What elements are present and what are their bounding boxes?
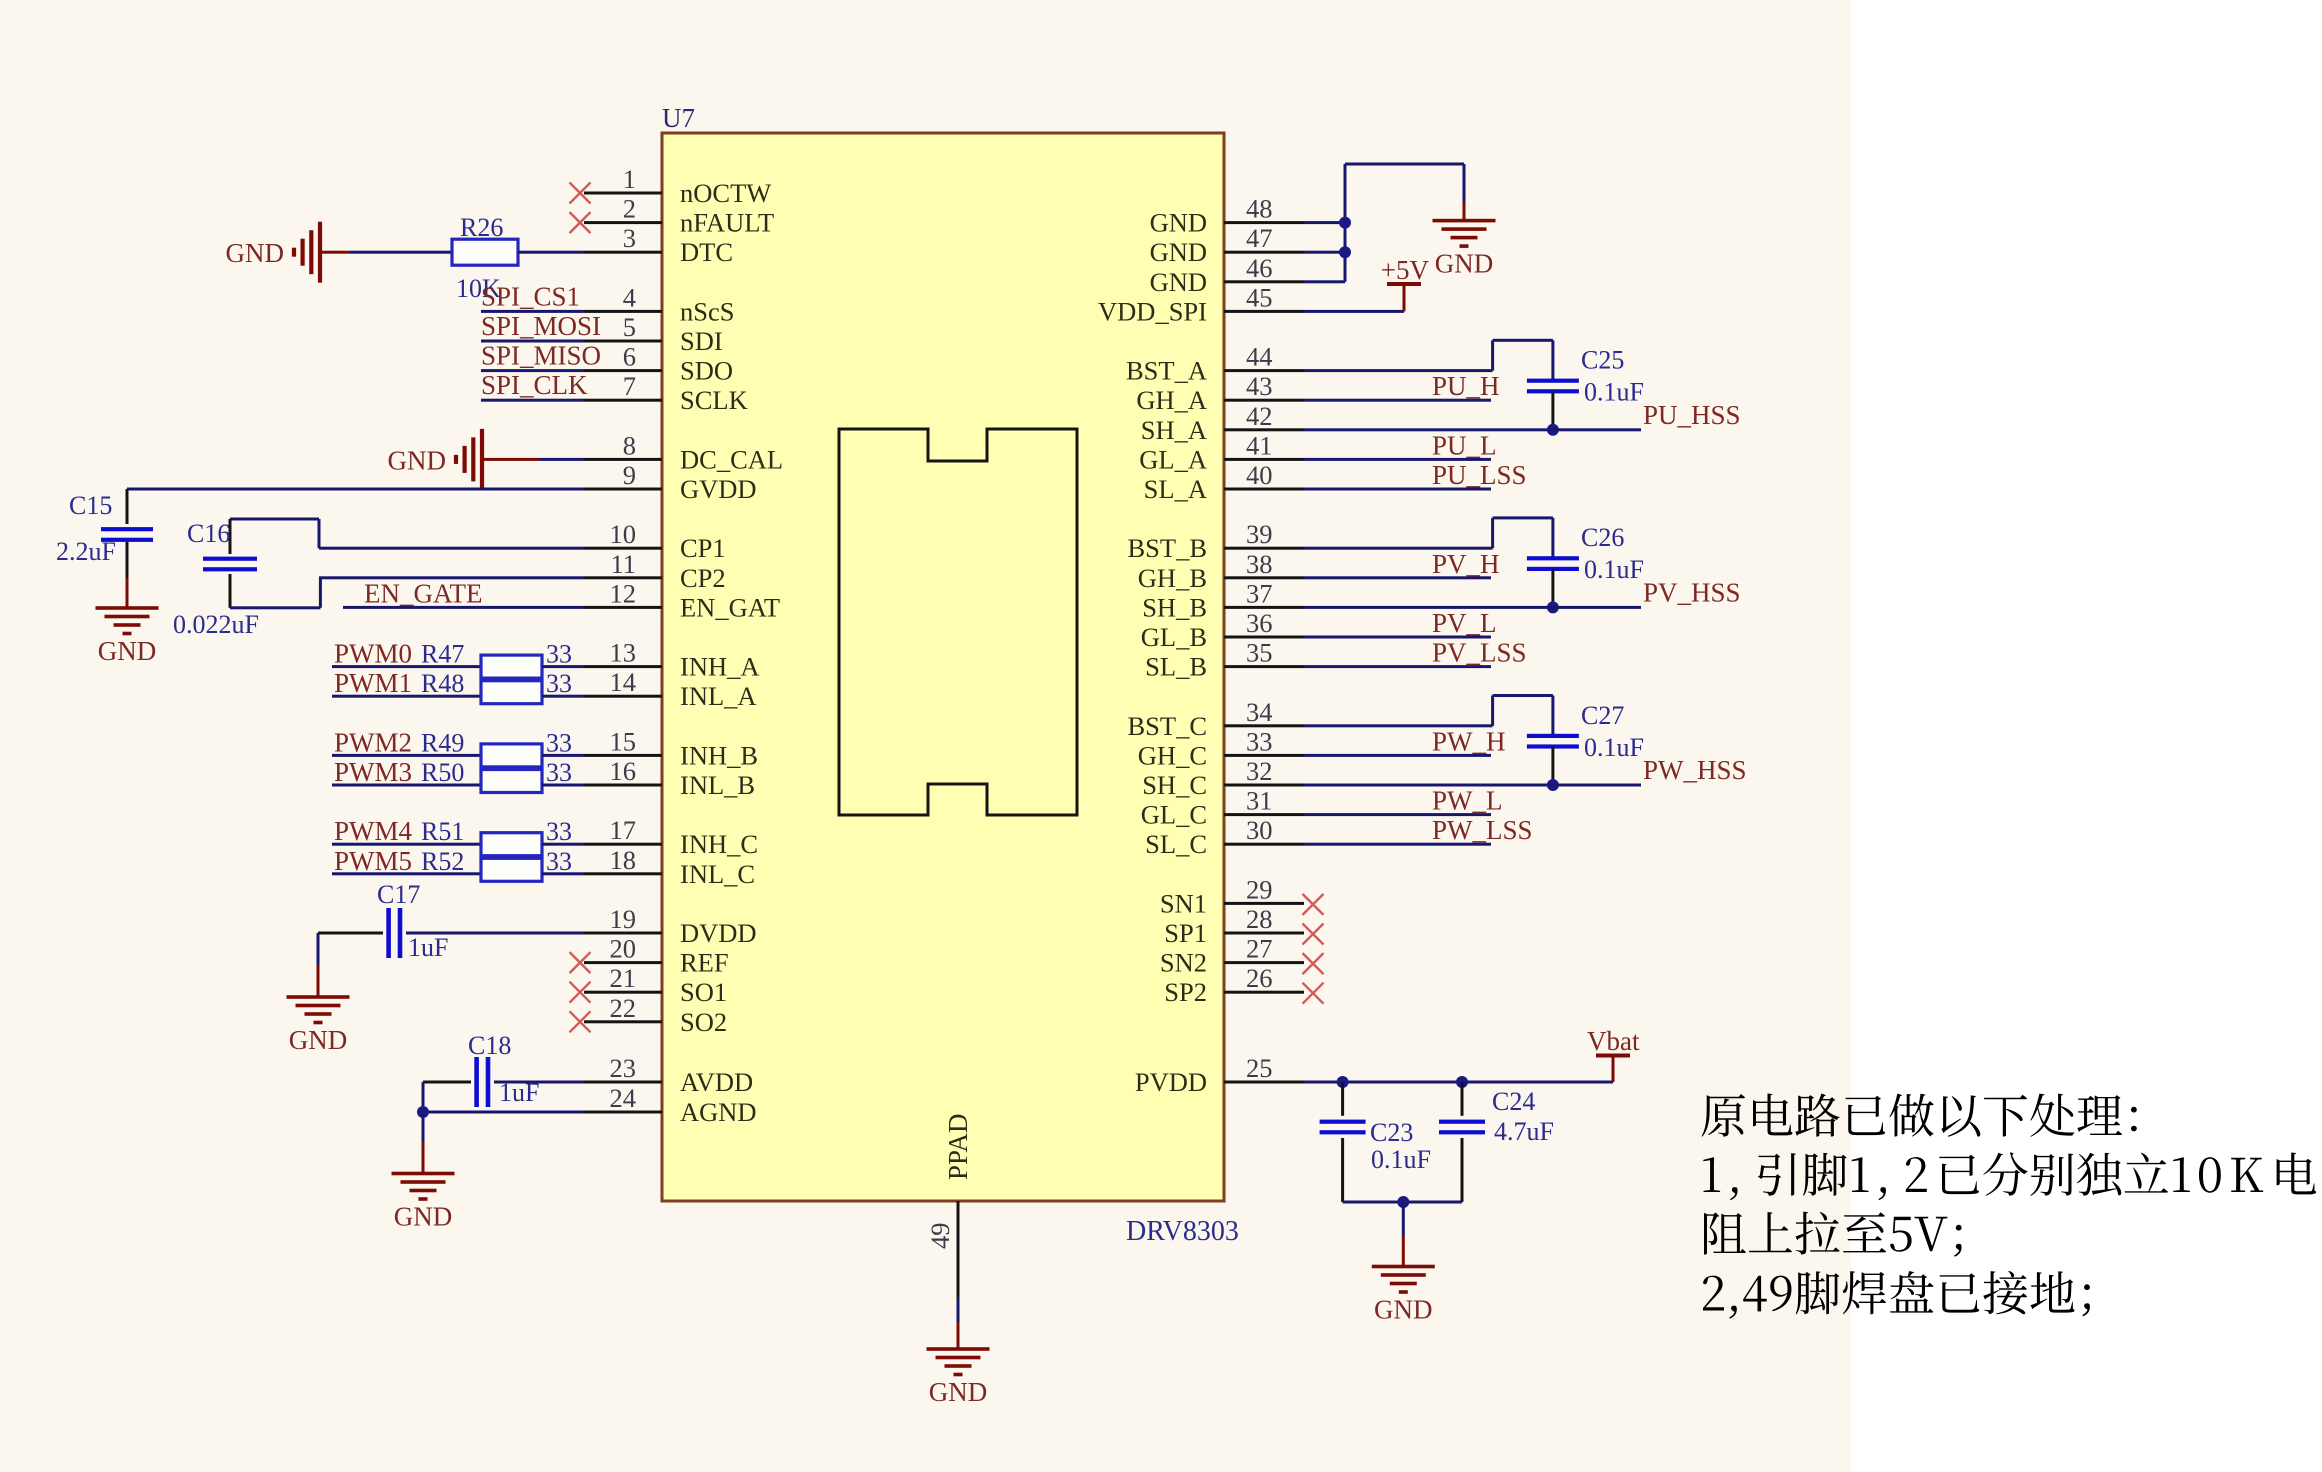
svg-text:GND: GND bbox=[98, 636, 157, 666]
svg-text:INH_A: INH_A bbox=[680, 652, 760, 682]
svg-text:C18: C18 bbox=[468, 1031, 511, 1060]
svg-text:R26: R26 bbox=[460, 213, 503, 242]
svg-text:15: 15 bbox=[610, 726, 637, 756]
svg-text:37: 37 bbox=[1246, 578, 1273, 608]
svg-text:30: 30 bbox=[1246, 815, 1273, 845]
svg-text:16: 16 bbox=[610, 756, 637, 786]
svg-text:36: 36 bbox=[1246, 608, 1273, 638]
svg-text:1: 1 bbox=[623, 164, 636, 194]
svg-text:GH_A: GH_A bbox=[1136, 385, 1207, 415]
svg-text:INL_B: INL_B bbox=[680, 770, 755, 800]
svg-text:C17: C17 bbox=[377, 880, 420, 909]
svg-text:SPI_MISO: SPI_MISO bbox=[481, 341, 601, 371]
svg-text:45: 45 bbox=[1246, 282, 1273, 312]
svg-text:PV_LSS: PV_LSS bbox=[1432, 638, 1527, 668]
svg-text:GND: GND bbox=[929, 1377, 988, 1407]
svg-text:13: 13 bbox=[610, 638, 637, 668]
svg-text:33: 33 bbox=[546, 847, 572, 876]
svg-text:R49: R49 bbox=[421, 728, 464, 757]
svg-text:C26: C26 bbox=[1581, 523, 1624, 552]
svg-text:GND: GND bbox=[1150, 237, 1207, 267]
svg-text:33: 33 bbox=[546, 758, 572, 787]
svg-text:7: 7 bbox=[623, 371, 636, 401]
svg-text:PU_LSS: PU_LSS bbox=[1432, 460, 1527, 490]
svg-text:C23: C23 bbox=[1370, 1118, 1413, 1147]
svg-text:SH_C: SH_C bbox=[1142, 770, 1207, 800]
svg-text:GND: GND bbox=[1374, 1295, 1433, 1325]
svg-text:14: 14 bbox=[610, 667, 637, 697]
svg-text:REF: REF bbox=[680, 948, 729, 978]
svg-text:PWM5: PWM5 bbox=[334, 846, 412, 876]
svg-text:R50: R50 bbox=[421, 758, 464, 787]
svg-text:2.2uF: 2.2uF bbox=[56, 537, 116, 566]
svg-text:35: 35 bbox=[1246, 638, 1273, 668]
svg-text:VDD_SPI: VDD_SPI bbox=[1098, 296, 1207, 326]
svg-text:PWM1: PWM1 bbox=[334, 668, 412, 698]
svg-text:28: 28 bbox=[1246, 904, 1273, 934]
svg-text:nScS: nScS bbox=[680, 296, 735, 326]
svg-text:34: 34 bbox=[1246, 697, 1273, 727]
svg-text:29: 29 bbox=[1246, 874, 1273, 904]
svg-text:+5V: +5V bbox=[1381, 255, 1430, 285]
svg-text:SL_C: SL_C bbox=[1145, 829, 1207, 859]
svg-text:AGND: AGND bbox=[680, 1097, 757, 1127]
svg-text:10: 10 bbox=[610, 519, 637, 549]
svg-text:5: 5 bbox=[623, 312, 636, 342]
svg-text:GH_C: GH_C bbox=[1138, 740, 1207, 770]
svg-text:SDO: SDO bbox=[680, 356, 733, 386]
svg-text:31: 31 bbox=[1246, 786, 1273, 816]
svg-text:CP2: CP2 bbox=[680, 563, 726, 593]
svg-text:DVDD: DVDD bbox=[680, 918, 757, 948]
svg-text:SL_A: SL_A bbox=[1144, 474, 1207, 504]
svg-text:49: 49 bbox=[925, 1223, 955, 1250]
svg-text:PWM3: PWM3 bbox=[334, 757, 412, 787]
svg-text:GND: GND bbox=[1435, 249, 1494, 279]
svg-text:R48: R48 bbox=[421, 669, 464, 698]
svg-text:SN2: SN2 bbox=[1160, 948, 1207, 978]
svg-text:GND: GND bbox=[289, 1025, 348, 1055]
svg-text:INH_C: INH_C bbox=[680, 829, 758, 859]
svg-text:GL_C: GL_C bbox=[1141, 800, 1207, 830]
svg-text:PPAD: PPAD bbox=[943, 1113, 973, 1180]
svg-text:40: 40 bbox=[1246, 460, 1273, 490]
svg-text:BST_C: BST_C bbox=[1127, 711, 1207, 741]
svg-text:0.1uF: 0.1uF bbox=[1584, 378, 1644, 407]
svg-text:INL_C: INL_C bbox=[680, 859, 755, 889]
svg-text:SP2: SP2 bbox=[1164, 977, 1207, 1007]
svg-text:12: 12 bbox=[610, 578, 637, 608]
svg-text:C15: C15 bbox=[69, 491, 112, 520]
svg-text:U7: U7 bbox=[662, 103, 695, 133]
svg-text:GVDD: GVDD bbox=[680, 474, 757, 504]
svg-text:11: 11 bbox=[610, 549, 636, 579]
svg-text:33: 33 bbox=[546, 728, 572, 757]
svg-text:43: 43 bbox=[1246, 371, 1273, 401]
svg-text:PW_H: PW_H bbox=[1432, 726, 1506, 756]
svg-text:9: 9 bbox=[623, 460, 636, 490]
svg-text:42: 42 bbox=[1246, 401, 1273, 431]
svg-text:GND: GND bbox=[394, 1202, 453, 1232]
svg-text:PW_L: PW_L bbox=[1432, 786, 1503, 816]
svg-text:nFAULT: nFAULT bbox=[680, 208, 774, 238]
svg-text:21: 21 bbox=[610, 963, 637, 993]
svg-text:1uF: 1uF bbox=[499, 1078, 539, 1107]
svg-text:R47: R47 bbox=[421, 640, 464, 669]
svg-text:38: 38 bbox=[1246, 549, 1273, 579]
svg-text:PWM2: PWM2 bbox=[334, 727, 412, 757]
svg-text:GND: GND bbox=[1150, 267, 1207, 297]
svg-text:33: 33 bbox=[546, 817, 572, 846]
svg-text:SPI_CLK: SPI_CLK bbox=[481, 370, 588, 400]
svg-text:SP1: SP1 bbox=[1164, 918, 1207, 948]
svg-text:8: 8 bbox=[623, 430, 636, 460]
svg-text:33: 33 bbox=[1246, 726, 1273, 756]
svg-text:PW_LSS: PW_LSS bbox=[1432, 815, 1533, 845]
svg-text:PV_L: PV_L bbox=[1432, 608, 1497, 638]
svg-text:27: 27 bbox=[1246, 934, 1273, 964]
svg-text:SH_A: SH_A bbox=[1141, 415, 1207, 445]
svg-text:SCLK: SCLK bbox=[680, 385, 748, 415]
svg-text:6: 6 bbox=[623, 342, 636, 372]
svg-text:47: 47 bbox=[1246, 223, 1273, 253]
svg-text:SN1: SN1 bbox=[1160, 888, 1207, 918]
svg-text:0.1uF: 0.1uF bbox=[1584, 733, 1644, 762]
svg-text:INH_B: INH_B bbox=[680, 740, 758, 770]
svg-text:GND: GND bbox=[1150, 208, 1207, 238]
svg-text:C24: C24 bbox=[1492, 1087, 1535, 1116]
svg-text:PWM0: PWM0 bbox=[334, 639, 412, 669]
svg-text:PV_H: PV_H bbox=[1432, 549, 1500, 579]
svg-text:BST_A: BST_A bbox=[1126, 356, 1207, 386]
svg-text:SDI: SDI bbox=[680, 326, 723, 356]
svg-text:C16: C16 bbox=[187, 519, 230, 548]
svg-text:SO1: SO1 bbox=[680, 977, 727, 1007]
svg-text:4: 4 bbox=[623, 282, 636, 312]
svg-text:DTC: DTC bbox=[680, 237, 733, 267]
svg-text:GND: GND bbox=[388, 445, 447, 475]
svg-text:GL_B: GL_B bbox=[1141, 622, 1207, 652]
svg-text:DRV8303: DRV8303 bbox=[1126, 1216, 1239, 1247]
svg-text:PU_H: PU_H bbox=[1432, 371, 1500, 401]
svg-text:PU_L: PU_L bbox=[1432, 430, 1497, 460]
svg-text:BST_B: BST_B bbox=[1127, 533, 1207, 563]
svg-text:3: 3 bbox=[623, 223, 636, 253]
svg-text:39: 39 bbox=[1246, 519, 1273, 549]
svg-text:1uF: 1uF bbox=[408, 933, 448, 962]
svg-text:20: 20 bbox=[610, 934, 637, 964]
svg-text:17: 17 bbox=[610, 815, 637, 845]
svg-text:SL_B: SL_B bbox=[1145, 652, 1207, 682]
svg-text:SPI_CS1: SPI_CS1 bbox=[481, 281, 580, 311]
svg-text:R51: R51 bbox=[421, 817, 464, 846]
svg-text:25: 25 bbox=[1246, 1053, 1273, 1083]
svg-text:EN_GATE: EN_GATE bbox=[364, 578, 482, 608]
svg-text:0.1uF: 0.1uF bbox=[1371, 1145, 1431, 1174]
svg-text:C27: C27 bbox=[1581, 701, 1624, 730]
svg-text:SO2: SO2 bbox=[680, 1007, 727, 1037]
svg-text:32: 32 bbox=[1246, 756, 1273, 786]
svg-text:nOCTW: nOCTW bbox=[680, 178, 771, 208]
svg-text:SPI_MOSI: SPI_MOSI bbox=[481, 311, 601, 341]
svg-text:26: 26 bbox=[1246, 963, 1273, 993]
svg-text:R52: R52 bbox=[421, 847, 464, 876]
svg-text:0.022uF: 0.022uF bbox=[173, 610, 259, 639]
svg-text:Vbat: Vbat bbox=[1587, 1026, 1640, 1056]
svg-text:PVDD: PVDD bbox=[1135, 1067, 1207, 1097]
svg-text:PWM4: PWM4 bbox=[334, 816, 413, 846]
svg-text:SH_B: SH_B bbox=[1142, 592, 1207, 622]
svg-text:C25: C25 bbox=[1581, 346, 1624, 375]
svg-text:22: 22 bbox=[610, 993, 637, 1023]
svg-text:DC_CAL: DC_CAL bbox=[680, 444, 783, 474]
svg-text:44: 44 bbox=[1246, 342, 1273, 372]
svg-text:23: 23 bbox=[610, 1053, 637, 1083]
svg-text:46: 46 bbox=[1246, 253, 1273, 283]
svg-text:33: 33 bbox=[546, 640, 572, 669]
svg-text:0.1uF: 0.1uF bbox=[1584, 555, 1644, 584]
svg-text:19: 19 bbox=[610, 904, 637, 934]
svg-text:PW_HSS: PW_HSS bbox=[1643, 755, 1747, 785]
svg-text:33: 33 bbox=[546, 669, 572, 698]
svg-text:PV_HSS: PV_HSS bbox=[1643, 577, 1741, 607]
svg-text:4.7uF: 4.7uF bbox=[1494, 1117, 1554, 1146]
svg-text:48: 48 bbox=[1246, 194, 1273, 224]
svg-text:41: 41 bbox=[1246, 430, 1273, 460]
svg-text:GL_A: GL_A bbox=[1139, 444, 1207, 474]
svg-text:CP1: CP1 bbox=[680, 533, 726, 563]
svg-text:PU_HSS: PU_HSS bbox=[1643, 400, 1741, 430]
svg-text:18: 18 bbox=[610, 845, 637, 875]
svg-text:AVDD: AVDD bbox=[680, 1067, 753, 1097]
svg-text:INL_A: INL_A bbox=[680, 681, 757, 711]
svg-text:EN_GAT: EN_GAT bbox=[680, 592, 780, 622]
svg-text:2: 2 bbox=[623, 194, 636, 224]
svg-text:24: 24 bbox=[610, 1083, 637, 1113]
svg-text:GH_B: GH_B bbox=[1138, 563, 1207, 593]
svg-text:GND: GND bbox=[226, 238, 285, 268]
